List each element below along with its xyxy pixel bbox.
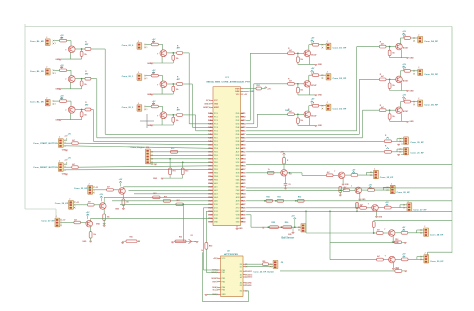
svg-text:10k: 10k	[84, 115, 87, 117]
supply +5V T14	[352, 169, 356, 173]
U1 pin 1 left	[208, 113, 218, 115]
net label T9 output	[333, 109, 347, 111]
wire top supply ring	[25, 26, 452, 28]
svg-text:Conn_D4_RF: Conn_D4_RF	[424, 40, 438, 43]
svg-text:BC547: BC547	[403, 110, 408, 113]
net label T8 output	[333, 78, 347, 80]
svg-text:PB4: PB4	[214, 175, 218, 178]
svg-text:PD2: PD2	[214, 141, 218, 143]
svg-text:GND: GND	[318, 64, 323, 66]
svg-text:GND: GND	[214, 104, 219, 106]
wire T10 emitter to ground	[400, 50, 402, 58]
resistor T7 pull-down	[297, 53, 304, 64]
U1 pin 22 left	[208, 186, 218, 189]
connector J12 output	[418, 98, 423, 106]
U1 pin 50 right	[236, 173, 246, 175]
U1 pin 48 right	[236, 166, 246, 168]
svg-text:J: J	[138, 103, 139, 105]
svg-text:Conn_25_KF_Switch: Conn_25_KF_Switch	[253, 271, 274, 274]
svg-text:PB3: PB3	[214, 173, 218, 175]
U1 pin 34 right	[236, 117, 246, 119]
ground T15	[358, 199, 366, 201]
U1 pin 61 right	[236, 211, 246, 213]
transistor T13	[281, 170, 292, 177]
U1 pin 38 right	[236, 131, 246, 133]
svg-text:GND: GND	[236, 222, 240, 224]
wire T6 connector to base resistor	[146, 106, 151, 108]
svg-text:4k7: 4k7	[377, 255, 380, 258]
wire U1 to J20	[246, 140, 384, 142]
wire T11 emitter to ground	[400, 83, 402, 91]
wire T7 collector up	[309, 45, 313, 51]
svg-text:D3: D3	[236, 124, 240, 126]
wire U2 D0 to R81	[246, 263, 263, 265]
wire T7 to connector	[319, 44, 326, 49]
svg-text:N$32: N$32	[208, 222, 212, 224]
svg-text:MOSI: MOSI	[236, 169, 240, 171]
supply +5V at R31	[265, 87, 272, 91]
supply +5V ball sensor	[291, 215, 296, 228]
wire T20 resistor to base	[94, 204, 100, 206]
svg-text:R61: R61	[277, 196, 280, 198]
svg-text:J: J	[327, 102, 328, 104]
U2 pin A2 right	[240, 276, 253, 279]
resistor T4 output	[177, 45, 183, 54]
svg-text:GND: GND	[409, 58, 414, 60]
wire U1 to J21	[246, 151, 384, 153]
svg-text:PC2: PC2	[214, 120, 218, 122]
wire T3 output to U1	[91, 110, 210, 142]
ground ball row left	[262, 226, 265, 229]
net label J11	[33, 167, 58, 169]
wire U1 to T16	[246, 207, 360, 209]
U1 pin 19 left	[208, 175, 218, 178]
wire T1 output to U1	[91, 49, 210, 134]
wire T3 connector to base resistor	[54, 100, 59, 102]
svg-text:Conn_28_KF: Conn_28_KF	[430, 235, 444, 237]
svg-text:N$20: N$20	[208, 180, 212, 182]
svg-text:M$16: M$16	[241, 166, 245, 168]
ground T21	[82, 241, 92, 243]
wire J12 pin2 to U1	[150, 155, 210, 157]
svg-text:M$31: M$31	[241, 218, 245, 220]
svg-text:Conn_D5_RF: Conn_D5_RF	[424, 74, 438, 76]
resistor T21 base	[74, 218, 81, 224]
svg-text:BC547: BC547	[311, 84, 316, 87]
connector J7 output	[326, 41, 331, 49]
capacitor C8	[284, 176, 291, 188]
U1 pin 57 right	[236, 196, 246, 199]
svg-text:M$15: M$15	[241, 162, 245, 164]
svg-text:10k: 10k	[360, 206, 363, 208]
wire T12 to connector	[410, 101, 417, 106]
wire T18 emitter down	[392, 263, 394, 268]
U2 pin D6 right	[240, 290, 247, 293]
origin cross marker	[140, 114, 154, 128]
supply +5V T15	[369, 184, 373, 188]
svg-text:R53: R53	[395, 239, 398, 241]
svg-text:GND: GND	[214, 218, 218, 220]
svg-text:M$3: M$3	[241, 120, 245, 122]
U1 pin 32 left	[208, 222, 218, 224]
svg-text:D11: D11	[214, 208, 218, 210]
svg-text:D2: D2	[191, 235, 193, 237]
wire T6 collector output	[167, 114, 177, 116]
wire J20 to connector	[391, 138, 403, 145]
resistor R61	[275, 196, 284, 202]
wire ring to T18 connector	[428, 252, 453, 256]
svg-text:4k7: 4k7	[72, 163, 75, 166]
supply +5V T6	[152, 101, 156, 105]
resistor T17 output	[401, 231, 408, 234]
wire T15 collector to output resistor	[362, 189, 368, 191]
wire T7 emitter to ground	[309, 56, 311, 64]
transistor T9	[304, 111, 317, 118]
svg-text:GND: GND	[239, 228, 244, 230]
U1 pin 26 left	[208, 200, 218, 203]
ground T2	[55, 89, 81, 91]
resistor R64 inline	[163, 195, 170, 202]
svg-text:10k: 10k	[176, 120, 179, 122]
svg-text:J: J	[138, 41, 139, 43]
connector J15 output	[390, 183, 395, 193]
svg-text:4k7: 4k7	[289, 110, 292, 113]
U2 pin D5 right	[240, 284, 252, 287]
svg-text:GND: GND	[409, 121, 414, 123]
resistor T5 pull-down	[172, 84, 179, 94]
svg-text:D5: D5	[236, 131, 240, 133]
ground T20 resistor bottom	[103, 219, 106, 226]
net label T3 input	[30, 102, 44, 104]
svg-text:GND: GND	[222, 294, 227, 296]
connector J19 input	[88, 183, 99, 194]
transistor T12	[396, 107, 409, 114]
resistor T2 pull-down	[80, 79, 87, 89]
U1 pin VCC top-left	[206, 100, 218, 103]
resistor T1 pull-down	[80, 49, 87, 59]
wire T2 resistor to transistor	[67, 70, 71, 76]
wire U2 D6 loop	[202, 252, 248, 301]
wire T21 resistor to base	[81, 222, 87, 224]
U1 pin 47 right	[236, 162, 246, 164]
U1 pin 4 left	[208, 123, 218, 126]
svg-text:M$8: M$8	[241, 138, 245, 140]
svg-text:D6: D6	[240, 291, 242, 293]
U2 pin PB1 left	[212, 272, 225, 275]
wire T3 resistor to transistor	[67, 101, 71, 107]
svg-text:10k: 10k	[343, 189, 346, 191]
wire U1 to T10 input	[246, 47, 379, 131]
wire T9 to connector	[319, 105, 326, 110]
svg-text:R5.1: R5.1	[257, 85, 261, 87]
U1 pin 49 right	[236, 169, 246, 171]
ground T19	[115, 208, 125, 210]
svg-text:M$32: M$32	[241, 222, 245, 224]
svg-text:10k: 10k	[93, 234, 96, 236]
svg-text:N$21: N$21	[208, 183, 212, 185]
wire J11 pin2	[66, 166, 72, 168]
resistor R63 inline	[153, 193, 160, 199]
resistor R54 bottom T18	[280, 267, 407, 273]
svg-text:M$1: M$1	[241, 113, 245, 115]
U1 pin 60 right	[236, 208, 246, 210]
svg-text:PC1: PC1	[214, 117, 218, 119]
U1 pin 42 right	[236, 145, 246, 147]
svg-text:R71: R71	[173, 171, 176, 173]
wire to ball connector	[298, 226, 300, 230]
transistor T14	[334, 171, 345, 178]
svg-text:R81: R81	[262, 261, 265, 263]
ground J10	[62, 150, 68, 152]
svg-text:GND: GND	[236, 218, 240, 220]
wire T6 emitter to ground	[161, 118, 163, 125]
wire T14 collector to output resistor	[345, 174, 351, 176]
svg-text:M$26: M$26	[241, 201, 245, 203]
connector J10	[58, 137, 65, 148]
U1 pin 16 left	[208, 166, 218, 168]
svg-text:M$22: M$22	[241, 187, 245, 189]
svg-text:BC547: BC547	[311, 114, 316, 117]
U1 pin 29 left	[208, 211, 218, 213]
resistor R55	[267, 222, 278, 229]
svg-text:M$9: M$9	[241, 141, 245, 143]
svg-text:1k: 1k	[201, 250, 203, 252]
U2 pin D1 right	[240, 266, 247, 269]
wire T17 emitter down	[392, 236, 394, 241]
svg-text:4k7: 4k7	[377, 229, 380, 232]
U2 pin A3 right	[240, 282, 252, 285]
svg-text:PB0: PB0	[214, 162, 218, 164]
resistor T18 output	[401, 258, 408, 261]
wire T10 to connector	[410, 37, 417, 42]
svg-text:BC547: BC547	[403, 79, 408, 82]
svg-text:INT0: INT0	[236, 183, 240, 185]
wire R81 to J8	[268, 263, 273, 265]
ground T14	[342, 184, 350, 186]
wire T15 emitter down	[359, 193, 361, 198]
U1 pin 27 left	[208, 204, 218, 206]
svg-text:N$2: N$2	[208, 117, 212, 119]
transistor T2	[65, 76, 75, 83]
wire T8 collector up	[309, 75, 313, 81]
svg-text:PD5: PD5	[214, 152, 218, 154]
U2 pin VCC left	[213, 258, 226, 261]
svg-text:4R7: 4R7	[85, 43, 88, 46]
connector J18 output	[424, 253, 429, 263]
wire T1 resistor to transistor	[67, 41, 71, 47]
resistor T21 emitter	[89, 232, 96, 238]
wire net to U1 pin 26	[120, 203, 210, 205]
resistor T3 pull-down	[80, 110, 87, 120]
transistor T5	[157, 81, 167, 88]
U1 pin 43 right	[236, 147, 246, 150]
svg-text:PB2: PB2	[214, 169, 218, 171]
svg-text:GND: GND	[96, 224, 101, 226]
U1 pin 20 left	[208, 180, 218, 182]
svg-text:GND: GND	[153, 178, 158, 180]
U1 pin GND bottom	[236, 226, 244, 230]
svg-text:D2: D2	[236, 120, 240, 122]
svg-text:J: J	[138, 72, 139, 74]
U1 pin GND top-right	[235, 90, 243, 93]
wire T5 resistor to transistor	[158, 76, 162, 82]
U1 pin 12 left	[208, 152, 218, 154]
net label T15 output	[397, 192, 411, 194]
supply +5V T5	[152, 70, 156, 74]
resistor T10 base	[379, 41, 386, 48]
wire T7 resistor to base	[294, 52, 304, 54]
svg-text:N$1: N$1	[208, 113, 212, 115]
connector J20	[404, 137, 409, 145]
svg-text:4R7: 4R7	[177, 78, 180, 81]
resistor R31	[256, 85, 261, 90]
svg-text:4k7: 4k7	[74, 218, 77, 221]
wire U1 to T12 input	[246, 110, 379, 138]
svg-text:4k7: 4k7	[327, 171, 330, 174]
svg-text:Conn_27_KF: Conn_27_KF	[41, 221, 55, 223]
wire R31 to +5V	[261, 88, 265, 90]
supply +5V T4	[152, 39, 156, 43]
U2 name label	[227, 251, 230, 253]
svg-text:J: J	[418, 98, 419, 100]
ground T18	[392, 268, 400, 270]
wire T4 resistor to transistor	[158, 45, 162, 51]
wire T20 connector to resistor	[75, 204, 87, 206]
transistor T16	[368, 204, 379, 211]
resistor T7 base	[288, 48, 295, 55]
U1 pin AREF top-left	[203, 106, 220, 109]
wire net to U1 pin 23	[134, 193, 210, 195]
wire T8 emitter to ground	[309, 87, 311, 95]
resistor R50 pull T15	[339, 187, 346, 196]
svg-text:M$20: M$20	[241, 180, 245, 182]
svg-text:Conn_START_BUTTON: Conn_START_BUTTON	[33, 142, 58, 145]
ground J11	[62, 174, 68, 176]
wire J10 pin3 to U1	[66, 146, 211, 149]
svg-text:GND: GND	[214, 222, 218, 224]
wire T16 resistor to base	[366, 207, 372, 209]
wire T5 connector to base resistor	[146, 75, 151, 77]
wire T20 resistor to ground	[103, 220, 105, 223]
wire T21 emitter down	[90, 227, 92, 232]
wire T17 resistor to base	[383, 232, 389, 234]
resistor T20 base	[88, 201, 95, 207]
svg-text:C8: C8	[288, 184, 290, 186]
resistor R52 pull T17	[372, 221, 375, 234]
svg-text:M$13: M$13	[241, 155, 245, 157]
resistor T16 output	[385, 206, 392, 209]
svg-text:4k7: 4k7	[381, 106, 384, 109]
supply +5V T7	[311, 38, 315, 45]
U1 pin 6 left	[208, 131, 218, 133]
node GND stub	[243, 91, 254, 93]
U1 pin 14 left	[208, 158, 218, 161]
svg-text:MOSI: MOSI	[212, 278, 217, 280]
U1 pin 63 right	[236, 218, 246, 220]
svg-text:M$7: M$7	[241, 134, 245, 136]
svg-text:D10: D10	[214, 204, 218, 206]
svg-text:PB1: PB1	[214, 166, 218, 168]
wire T9 emitter to ground	[309, 117, 311, 125]
U2 pin PB4 left	[212, 286, 225, 289]
connector J21 input	[55, 216, 66, 227]
resistor T6 base	[151, 102, 158, 107]
resistor T19 base	[107, 186, 114, 192]
svg-text:D5: D5	[240, 285, 242, 287]
resistor T5 output	[177, 76, 183, 85]
net label T4 input	[122, 45, 134, 47]
wire U2 GND left	[205, 293, 218, 296]
net label T16 output	[413, 209, 427, 211]
net label T19 input	[74, 188, 92, 190]
resistor R66	[174, 235, 196, 243]
wire U1 to R31	[243, 88, 256, 90]
svg-text:10k: 10k	[392, 85, 395, 87]
U1 value label	[207, 81, 251, 84]
U1 pin 15 left	[208, 162, 218, 164]
U1 pin 45 right	[236, 155, 246, 157]
ground ball row mid	[288, 227, 294, 236]
ground T5	[147, 94, 173, 96]
svg-text:PD0: PD0	[214, 134, 218, 136]
svg-text:GND: GND	[409, 90, 414, 92]
svg-text:XT1: XT1	[236, 204, 240, 206]
supply +5V J11	[64, 158, 71, 165]
supply +5V T12	[402, 95, 406, 102]
svg-text:D13: D13	[214, 215, 218, 217]
transistor T7	[304, 50, 317, 57]
svg-text:PD6: PD6	[214, 155, 218, 157]
svg-text:M$5: M$5	[241, 127, 245, 129]
U2 pin D0 right	[240, 263, 247, 266]
wire junction to R66 group	[182, 203, 184, 241]
net label J20	[410, 142, 424, 144]
svg-text:Ball Sensor: Ball Sensor	[282, 238, 295, 240]
connector J14 output	[374, 168, 379, 178]
U2 pin PB0 left	[212, 269, 225, 272]
wire vertical to U2 PB0	[203, 208, 218, 270]
U1 pin 36 right	[236, 123, 247, 126]
wire U1 to T8 input	[246, 84, 288, 124]
transistor T20	[100, 203, 107, 210]
connector J12 engine	[146, 147, 151, 164]
svg-text:J: J	[59, 161, 60, 163]
wire T18 resistor to base	[383, 259, 389, 261]
supply +5V T20	[99, 194, 103, 201]
net label T11 output	[424, 74, 438, 76]
U2 value label	[224, 253, 239, 256]
svg-text:M$30: M$30	[241, 215, 245, 217]
ground T16	[375, 217, 383, 219]
wire U1 to T13 base	[246, 172, 281, 174]
U1 pin 51 right	[236, 176, 246, 178]
transistor T21	[86, 220, 93, 227]
wire T2 connector to base resistor	[54, 69, 59, 71]
svg-text:Conn_20_1: Conn_20_1	[122, 76, 134, 78]
ground T7	[298, 64, 323, 66]
op-amp U1 body	[213, 87, 241, 226]
wire net to U1 pin 22	[129, 189, 211, 191]
U1 pin 28 left	[208, 208, 218, 210]
svg-text:4k7: 4k7	[72, 139, 75, 142]
svg-text:R60: R60	[266, 196, 269, 198]
svg-text:PB5: PB5	[214, 180, 218, 182]
svg-text:4k7: 4k7	[289, 80, 292, 83]
svg-text:Conn_D1_RF: Conn_D1_RF	[333, 48, 347, 50]
wire J11 pin3 to U1	[66, 168, 211, 171]
transistor T6	[157, 112, 167, 119]
net label Ball Sensor	[282, 238, 295, 240]
